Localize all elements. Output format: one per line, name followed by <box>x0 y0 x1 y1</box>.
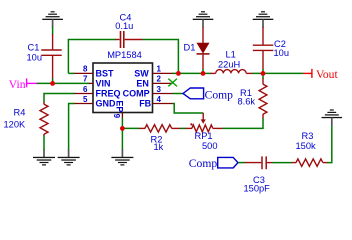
svg-text:1: 1 <box>157 65 162 74</box>
wire R3 to right ground <box>327 124 332 162</box>
ground GND-bot-3 under EP <box>111 149 133 165</box>
node Vin junction <box>50 81 55 86</box>
svg-text:Comp: Comp <box>205 89 234 102</box>
wire L1 to Vout port <box>252 72 303 74</box>
wire R4 to ground <box>43 136 45 151</box>
pin 6 FREQ <box>74 85 121 99</box>
pin 8 BST <box>74 65 115 79</box>
node SW-C4 junction <box>176 71 181 76</box>
svg-text:10u: 10u <box>274 48 290 58</box>
svg-text:6: 6 <box>83 85 88 94</box>
svg-text:FREQ: FREQ <box>96 89 121 99</box>
wire EP pin down <box>121 118 123 150</box>
resistor R2 <box>139 127 145 129</box>
wire EP junction to R2 <box>122 127 139 129</box>
svg-text:9: 9 <box>112 114 121 119</box>
wire C3 to R3 <box>272 162 291 164</box>
node SW-D1 junction <box>201 71 206 76</box>
svg-text:COMP: COMP <box>123 89 150 99</box>
svg-text:500: 500 <box>202 141 218 151</box>
svg-text:R3: R3 <box>302 131 314 141</box>
ground GND-top-1 above C1 <box>42 11 63 27</box>
svg-text:MP1584: MP1584 <box>107 50 142 60</box>
port Comp bottom <box>189 157 238 170</box>
no-ERC cross on pin 2 <box>168 79 177 87</box>
port Comp right <box>183 88 233 102</box>
wire FREQ pin to R4 <box>44 94 75 103</box>
wire R1 bottom to RP1 <box>222 118 263 128</box>
svg-text:5: 5 <box>83 95 88 104</box>
wire C2 to Vout node <box>262 69 264 73</box>
wire SW net <box>173 72 204 74</box>
svg-text:1k: 1k <box>154 142 164 152</box>
svg-text:C1: C1 <box>28 43 40 53</box>
svg-text:BST: BST <box>96 69 115 79</box>
pin 4 FB <box>139 95 172 109</box>
wire GND pin to ground <box>69 104 75 151</box>
ground GND-top-2 above D1 <box>193 11 214 27</box>
svg-text:D1: D1 <box>184 42 196 52</box>
wire BST loop (left vertical and top) <box>68 40 115 74</box>
svg-text:150k: 150k <box>296 141 317 151</box>
svg-text:SW: SW <box>134 69 149 79</box>
pin 7 VIN <box>83 75 111 89</box>
svg-text:22uH: 22uH <box>218 59 240 69</box>
port Vout <box>303 68 338 81</box>
svg-text:8: 8 <box>83 65 88 74</box>
ground GND-right above R3 <box>322 109 343 125</box>
wire COMP pin to port <box>173 93 184 95</box>
resistor R1 <box>262 73 264 79</box>
pin 5 GND <box>74 95 117 109</box>
svg-text:FB: FB <box>139 99 151 109</box>
diode D1 <box>197 27 210 70</box>
pin 9 EP exposed pad <box>112 100 125 118</box>
ground GND-bot-2 under pin 5 <box>58 149 80 165</box>
pin 1 SW <box>134 65 172 79</box>
pin 2 EN <box>136 75 172 89</box>
svg-text:Comp: Comp <box>189 157 218 170</box>
wire C1 upper <box>52 27 54 35</box>
wire D1 to SW node <box>202 69 204 73</box>
capacitor C3 <box>245 162 262 164</box>
ground GND-bot-1 under R4 <box>33 149 55 165</box>
svg-text:Vout: Vout <box>316 68 338 81</box>
svg-text:R4: R4 <box>14 107 26 117</box>
ground GND-top-3 above C2 <box>253 11 274 27</box>
node Vout junction <box>261 71 266 76</box>
capacitor C2 <box>253 27 273 70</box>
wire Comp port to C3 <box>238 162 245 164</box>
svg-text:10u: 10u <box>27 53 43 63</box>
capacitor C1 <box>41 34 61 79</box>
svg-text:3: 3 <box>157 85 162 94</box>
svg-text:L1: L1 <box>226 50 236 60</box>
svg-text:4: 4 <box>157 95 162 104</box>
svg-text:0.1u: 0.1u <box>115 21 133 31</box>
resistor R3 <box>291 162 296 164</box>
svg-text:VIN: VIN <box>96 79 111 89</box>
inductor L1 <box>210 70 252 74</box>
svg-text:150pF: 150pF <box>244 184 271 194</box>
wire C4 to SW node (top and right vertical) <box>143 40 179 74</box>
IC U1 MP1584 body <box>93 63 153 113</box>
svg-text:RP1: RP1 <box>195 131 213 141</box>
svg-text:EN: EN <box>136 79 149 89</box>
potentiometer RP1 <box>185 127 192 129</box>
port Vin <box>9 78 37 91</box>
svg-text:120K: 120K <box>4 120 27 130</box>
resistor R4 <box>43 102 45 104</box>
pin 3 COMP <box>123 85 173 99</box>
svg-text:8.6k: 8.6k <box>238 97 256 107</box>
wire R2 to RP1 <box>180 127 185 129</box>
wire BST corner <box>68 72 74 74</box>
svg-text:GND: GND <box>96 99 117 109</box>
wire Vin to pin 7 <box>37 82 90 84</box>
svg-text:7: 7 <box>83 75 88 84</box>
svg-text:EP: EP <box>115 100 125 112</box>
svg-text:2: 2 <box>157 75 162 84</box>
capacitor C4 <box>115 31 142 48</box>
wire C1 lower to Vin node <box>52 79 54 84</box>
wire SW node to L1 <box>203 72 211 74</box>
node EP-R2 junction <box>120 126 125 131</box>
wire FB pin to RP1 wiper <box>173 104 204 114</box>
svg-text:Vin: Vin <box>9 78 26 91</box>
